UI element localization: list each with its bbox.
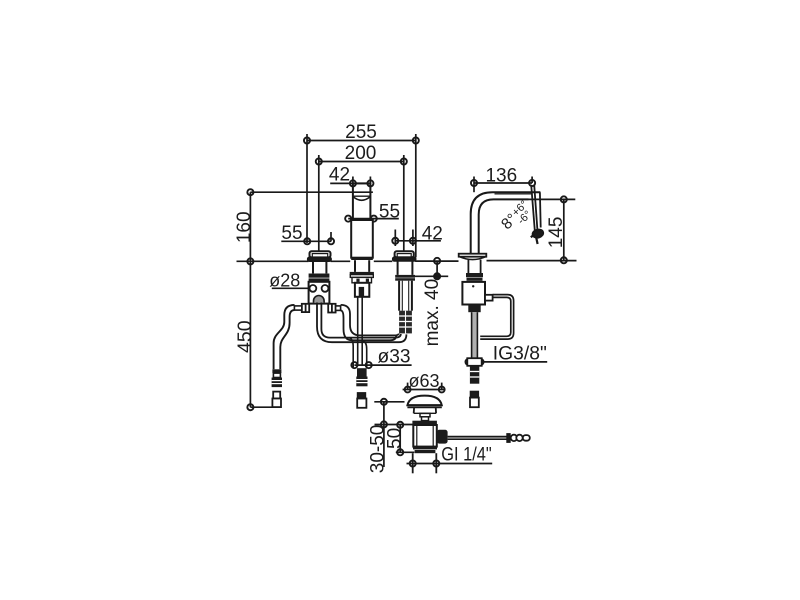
side view hose nut [468, 305, 480, 313]
side view valve body [462, 282, 492, 305]
left valve body [309, 282, 330, 304]
svg-text:50: 50 [384, 428, 405, 449]
svg-text:42: 42 [422, 223, 443, 244]
right valve shaft [398, 261, 413, 275]
svg-text:42: 42 [329, 165, 350, 186]
left valve shaft [313, 261, 326, 273]
svg-text:450: 450 [234, 320, 256, 353]
drain rod tip [507, 434, 530, 442]
extension line 255 right [415, 134, 417, 257]
dim 55 middle [345, 216, 399, 222]
right valve body tube [399, 281, 412, 311]
dim o28 leader [272, 287, 311, 289]
left valve side ports [294, 304, 340, 313]
ref line 450 bottom [250, 406, 271, 408]
dim o63 [403, 383, 445, 393]
dim max40 [408, 258, 448, 280]
drain body bottom [413, 447, 437, 454]
dim 145 [529, 196, 576, 263]
right valve locknut [395, 275, 415, 281]
svg-text:GI 1/4": GI 1/4" [441, 445, 492, 466]
drain collar [412, 421, 437, 425]
drain rod [448, 437, 508, 440]
side view ribbed connector [470, 366, 479, 384]
left hose [274, 305, 295, 369]
side view locknut [466, 273, 483, 281]
side view IG fitting [467, 358, 481, 366]
drain tailpiece [413, 453, 437, 473]
o33 nut fitting [356, 368, 367, 386]
deck line segments [237, 260, 309, 262]
svg-text:136: 136 [485, 165, 517, 186]
right valve threaded section [399, 311, 412, 334]
side view hose [472, 312, 478, 358]
side view end piece [470, 392, 479, 408]
drain clicker [420, 413, 430, 420]
dim 42 top [330, 177, 373, 187]
dim o33 leader [351, 362, 411, 368]
svg-text:max. 40: max. 40 [422, 279, 443, 347]
left valve flange nuts [309, 274, 330, 282]
dim 55 left [281, 232, 334, 244]
drain body [413, 425, 437, 447]
drain neck [414, 407, 436, 413]
dim 50 [396, 422, 415, 456]
svg-text:255: 255 [345, 122, 377, 143]
hose right end upturn [390, 334, 406, 343]
side view shaft [468, 260, 480, 273]
left hose end piece [272, 392, 281, 408]
dim 160 [247, 189, 253, 264]
dim IG3/8 leader [465, 359, 547, 365]
side view deck flange [459, 254, 487, 260]
dim 255 line [304, 137, 419, 143]
svg-text:55: 55 [379, 201, 400, 222]
side view bracket loop [480, 295, 513, 340]
left handle base [308, 251, 331, 261]
svg-text:ø63: ø63 [408, 371, 439, 391]
hose center tube from left valve [317, 303, 399, 343]
dim 200 line [316, 158, 407, 164]
extension line 200 right [403, 155, 405, 251]
dim 30-50 [374, 399, 413, 467]
dim 136 [471, 177, 535, 193]
side view spout tube [471, 192, 541, 253]
svg-text:145: 145 [546, 217, 567, 249]
left hose end fitting [272, 369, 282, 387]
middle end piece [357, 393, 366, 408]
dim GI 1/4 leader [407, 460, 493, 466]
middle column flange [350, 272, 374, 283]
hose from left valve right port [341, 305, 394, 340]
extension line 200 left [318, 155, 320, 251]
drain knob [437, 430, 448, 444]
dim 450 [247, 261, 253, 410]
side view nozzle [531, 185, 544, 244]
right handle base [393, 251, 416, 261]
middle column body [351, 220, 373, 260]
middle column neck [355, 260, 369, 272]
extension line 255 left [306, 134, 308, 243]
svg-text:ø33: ø33 [378, 346, 411, 367]
svg-text:55: 55 [281, 223, 302, 244]
svg-text:160: 160 [234, 211, 255, 243]
drain dome [407, 396, 441, 408]
middle column top [353, 183, 371, 220]
middle bundle tubes [349, 297, 367, 368]
svg-text:200: 200 [345, 143, 377, 164]
dim 42 right [392, 230, 441, 247]
ref line 160 top [250, 191, 373, 193]
middle column shank [355, 283, 369, 297]
